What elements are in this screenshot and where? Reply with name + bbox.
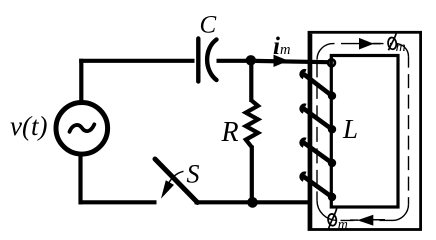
wire: capacitor right plate to top junction: [217, 59, 253, 63]
ac source v(t): [56, 103, 108, 155]
inductor L winding: [301, 59, 336, 201]
svg-text:v(t): v(t): [10, 111, 47, 141]
wire: top junction to coil top: [251, 61, 328, 62]
wire: bottom rail left segment to switch: [79, 200, 157, 204]
wire: top rail from corner to capacitor left plate: [79, 59, 194, 63]
node: top junction: [246, 55, 256, 65]
svg-text:C: C: [200, 12, 217, 39]
resistor R: [246, 101, 258, 148]
flux arrow top: [359, 38, 374, 50]
switch S: [155, 159, 198, 203]
svg-text:m: m: [396, 40, 406, 55]
core outer boundary: [309, 32, 421, 229]
svg-text:S: S: [187, 160, 200, 189]
flux arrow bottom: [357, 215, 373, 226]
svg-text:R: R: [221, 117, 239, 148]
wire: top-left vertical from source to top rail: [79, 59, 83, 101]
label phi_m (bottom): [327, 208, 348, 232]
capacitor C: [198, 39, 216, 82]
wire: resistor top lead: [249, 61, 253, 102]
wire: resistor bottom lead: [250, 146, 254, 204]
svg-text:m: m: [338, 218, 348, 233]
wire: bottom rail from switch through junction to core: [195, 200, 310, 204]
node: bottom junction: [247, 197, 258, 208]
label phi_m (top): [387, 33, 405, 55]
svg-text:L: L: [342, 114, 358, 144]
wire: source bottom to bottom-left corner: [78, 154, 82, 204]
current arrow i_m: [274, 55, 289, 67]
core inner boundary (window): [331, 56, 398, 208]
flux path (dashed): [317, 44, 409, 221]
